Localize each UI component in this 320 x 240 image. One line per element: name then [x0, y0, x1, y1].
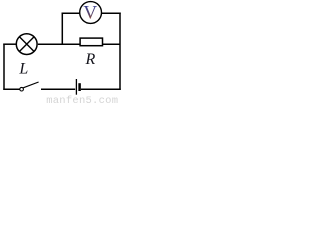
wire: resistor to right rail [103, 43, 120, 45]
wire: bottom-left to switch [3, 88, 19, 90]
wire: top-right horizontal from voltmeter to right rail [102, 12, 121, 14]
lamp L [16, 34, 37, 55]
svg-text:R: R [85, 51, 96, 68]
wire: top-left horizontal from node A to voltmeter [62, 12, 80, 14]
svg-text:L: L [18, 61, 28, 78]
wire: battery to right rail [81, 88, 121, 90]
switch lever [23, 82, 38, 88]
wire: left stub into lamp [3, 43, 16, 45]
svg-text:manfen5.com: manfen5.com [46, 95, 118, 103]
wire: left vertical rail [3, 44, 5, 90]
wire: left vertical of voltmeter branch [61, 13, 63, 45]
battery B1 negative plate [78, 83, 81, 91]
wire: switch to battery [41, 88, 75, 90]
switch S pivot [20, 87, 24, 91]
resistor R [80, 38, 102, 46]
svg-text:V: V [83, 3, 97, 24]
wire: lamp to resistor [38, 43, 80, 45]
voltmeter U1 [80, 2, 102, 24]
battery B1 positive plate [75, 79, 77, 95]
wire: right vertical rail [119, 13, 121, 90]
